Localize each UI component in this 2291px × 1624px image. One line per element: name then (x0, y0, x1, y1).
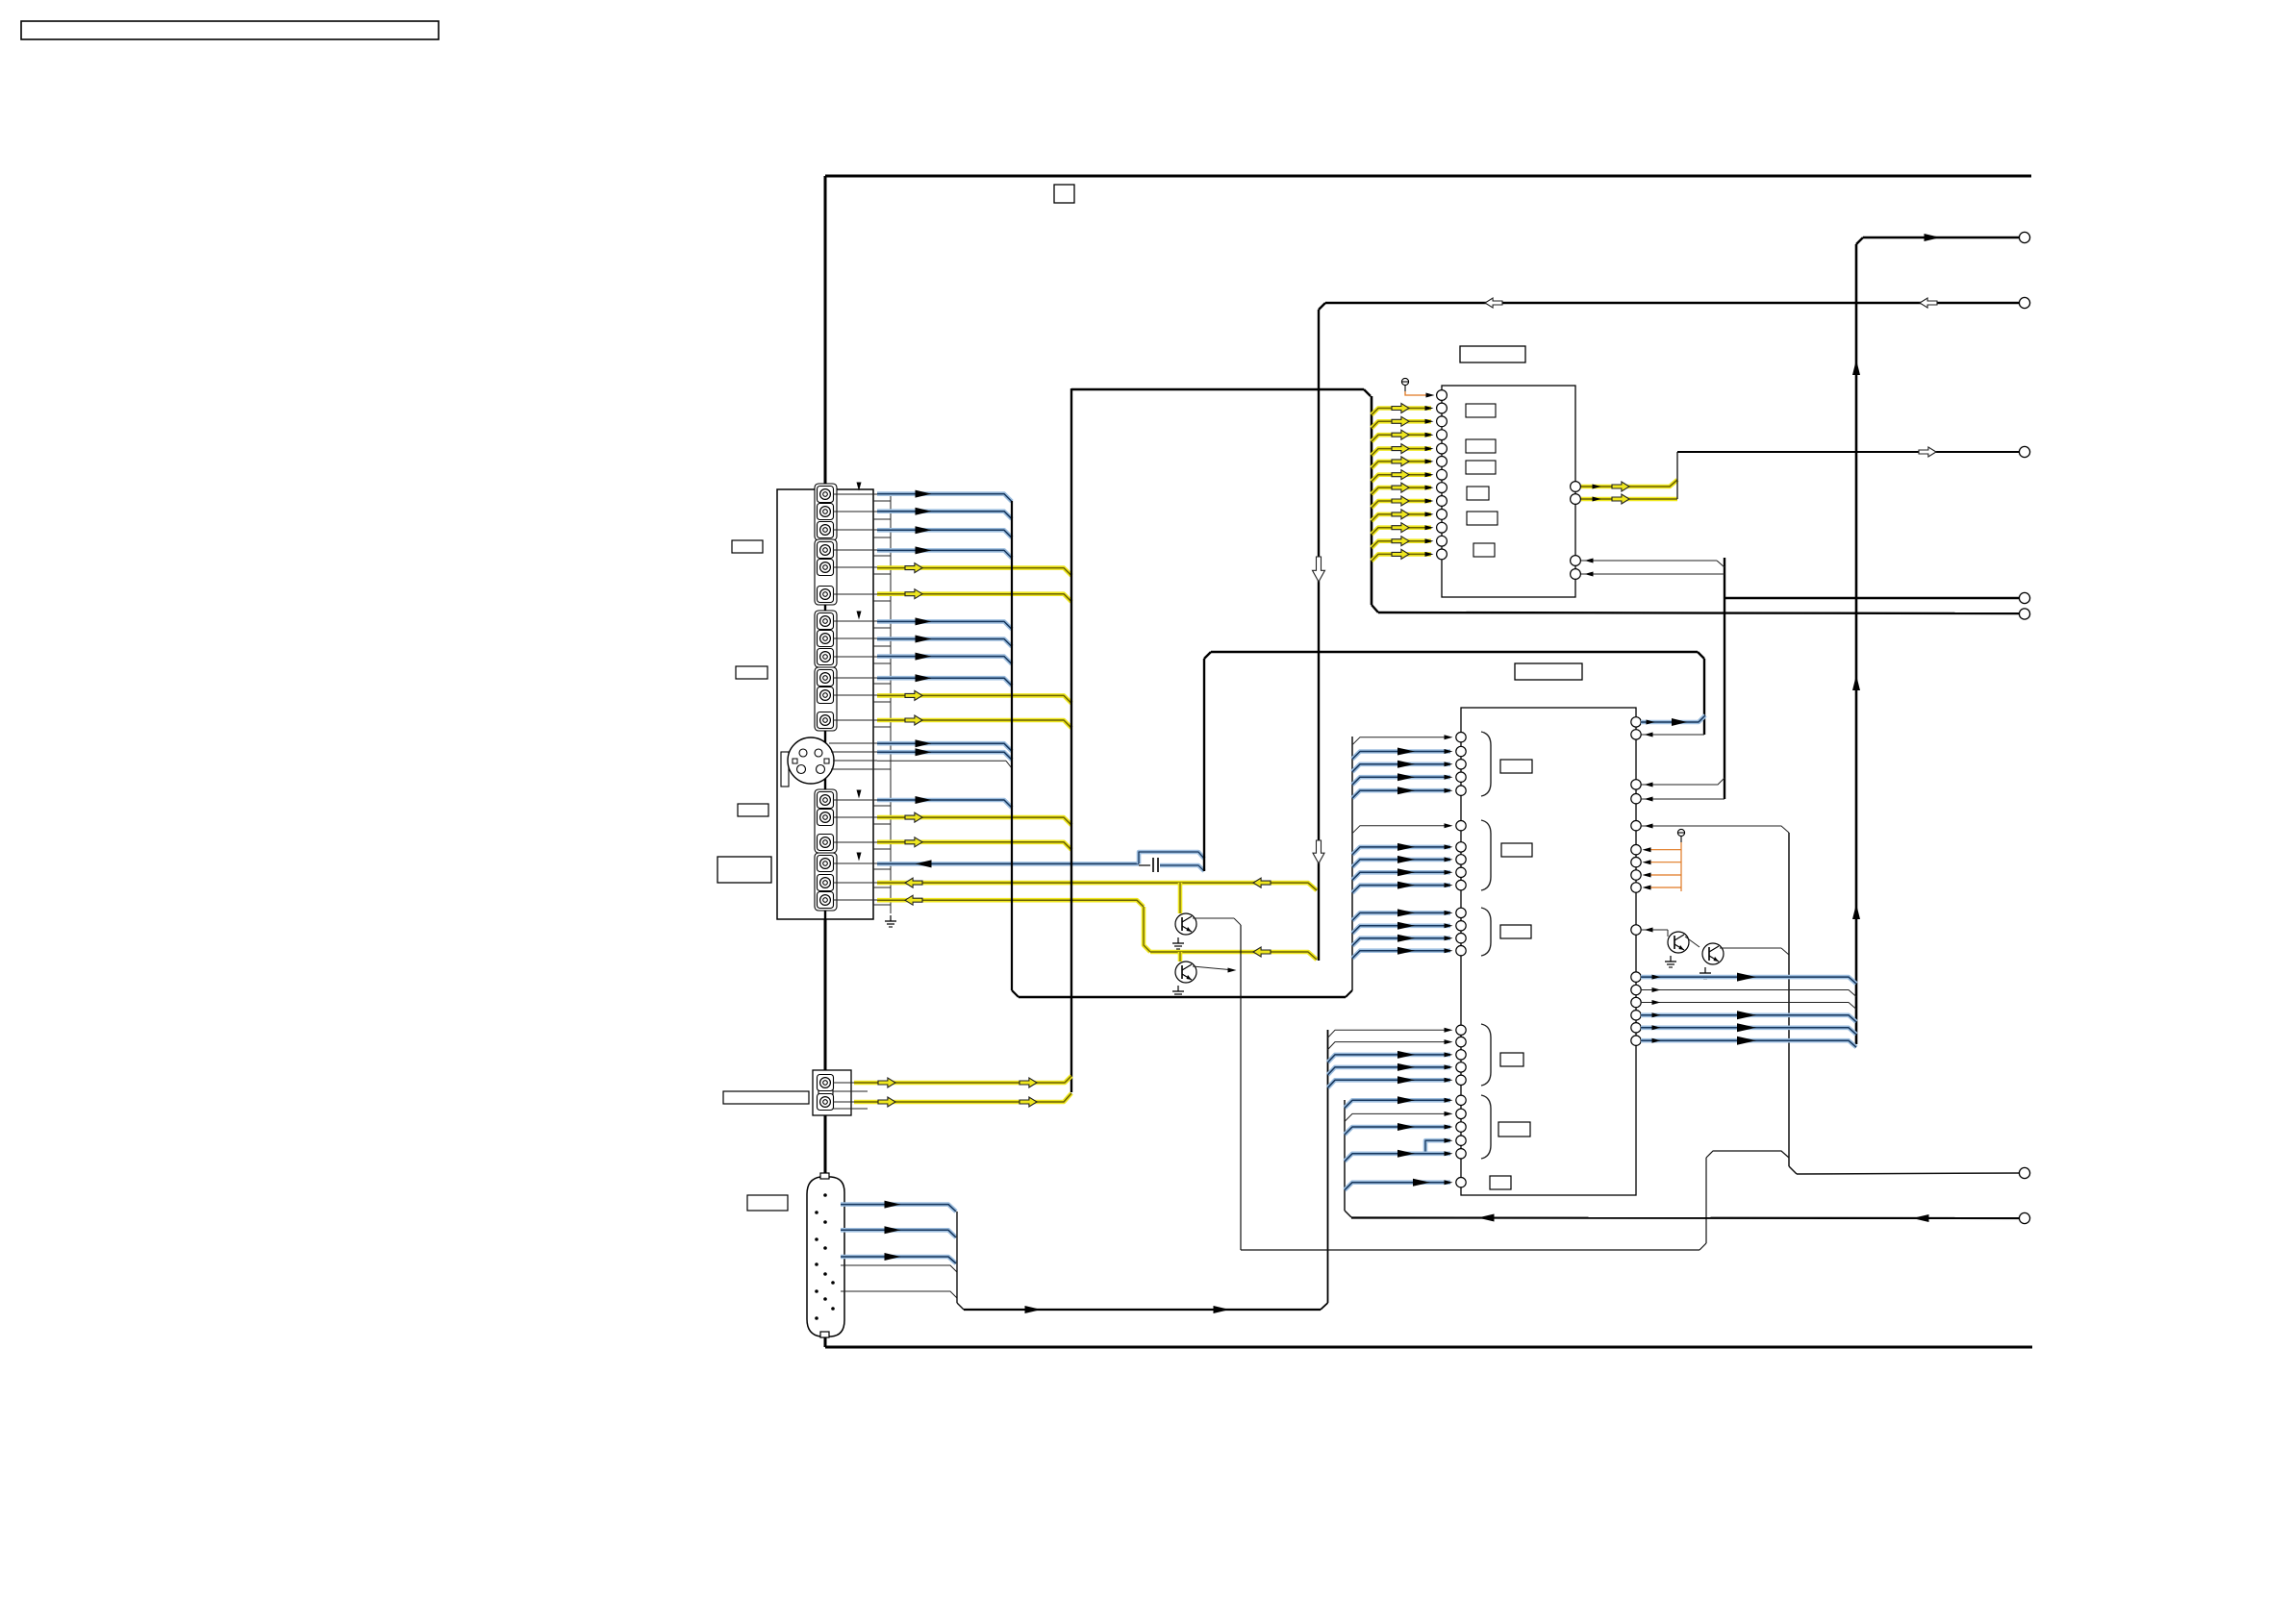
IC2 out blue wire r5 (1641, 1023, 1856, 1035)
wire y470 to terminal (1677, 447, 2020, 457)
blue AV wire y572 (877, 546, 1012, 558)
label box J2 (736, 666, 768, 679)
blue AV wire y646 (877, 617, 1012, 629)
orange wire pin 2 (1643, 860, 1682, 864)
IC2 left pin g5.6 (1456, 1178, 1466, 1187)
terminal circle y470 (2019, 446, 2029, 457)
yellow bus x1114 (1070, 388, 1072, 1092)
IC2 left wire 3 (1352, 761, 1453, 772)
yellow wire CN2.1 (854, 1076, 1071, 1087)
IC2 left wire 9 (1352, 868, 1453, 880)
blue AV wire y782 (877, 748, 1012, 760)
IC2 right pin 4 (1631, 794, 1641, 804)
yellow video wire y617 (877, 589, 1071, 602)
IC2 right pin 3 (1631, 780, 1641, 789)
jack group 4 box (815, 667, 837, 731)
blue monitor-out wire y898 (877, 860, 1139, 867)
feed bus x1398 (1345, 1100, 1351, 1217)
IC2 inner rect 1 (1500, 760, 1532, 773)
mini down arrow y891 (857, 853, 862, 862)
S-video pin leads (829, 743, 891, 769)
IC1 out pin B (1571, 494, 1581, 505)
IC1 in pin D (1571, 569, 1581, 580)
IC1 in pin C (1571, 556, 1581, 566)
riser x1744 (1676, 452, 1678, 499)
RCA jack 3.2 (818, 631, 834, 647)
IC1 yellow input wire pin 5 (1372, 444, 1434, 456)
label box D-sub (747, 1195, 788, 1211)
IC2 in wire y764 (1641, 733, 1704, 737)
wire y637 to terminal (1378, 612, 2020, 613)
transistor Q3 (1175, 913, 1196, 935)
wire y1266 from terminal (1351, 1214, 2020, 1223)
down arrow 2 on x1370 (1313, 840, 1324, 863)
RCA jack 6.3 (818, 892, 834, 909)
IC2 left pin 10 (1456, 880, 1466, 889)
orange supply node (1677, 829, 1684, 842)
ground Q2 (1699, 967, 1711, 979)
RCA jack 4.3 (818, 712, 834, 729)
RCA jack 1.2 (818, 504, 834, 520)
vert x1290 (1240, 925, 1242, 1250)
orange wire pin 3 (1643, 873, 1682, 878)
IC2 right pin 1 (1631, 717, 1641, 727)
IC2 left wire 11 (1352, 909, 1453, 920)
IC2 right pin 5 (1631, 821, 1641, 831)
Q2 collector wire (1720, 948, 1789, 955)
panel ground (885, 915, 896, 927)
IC1 inner block 2 (1466, 439, 1496, 453)
IC1 pin 10 (1437, 510, 1448, 520)
IC2 right pin 8 (1631, 870, 1641, 880)
IC1 body (1442, 386, 1575, 597)
terminal circle y315 (2019, 297, 2029, 308)
yellow video wire y749 (877, 715, 1071, 728)
jack group 6 box (815, 853, 837, 911)
IC1 yellow input wire pin 4 (1372, 430, 1434, 441)
IC2 right pin 7 (1631, 858, 1641, 867)
group brace 2 (1481, 820, 1491, 890)
IC2 right pin 10 (1631, 925, 1641, 935)
IC1 yellow out wires (1581, 480, 1677, 504)
IC2 right pin 15 (1631, 1023, 1641, 1033)
IC1 pin 1 (1437, 390, 1448, 401)
IC2 out wire r2 (1641, 987, 1856, 997)
IC1 pin 12 (1437, 536, 1448, 546)
title box (top-left) (21, 21, 439, 39)
jack CN2 outline (813, 1070, 851, 1115)
IC1 yellow input wire pin 10 (1372, 510, 1434, 521)
RCA jack 5.3 (818, 835, 834, 851)
IC2 left pin 14 (1456, 946, 1466, 956)
IC2 inner rect 3 (1500, 925, 1531, 938)
IC2 left pin 8 (1456, 855, 1466, 864)
IC2 left pin g5.2 (1456, 1109, 1466, 1118)
bus x1793 (1724, 558, 1725, 799)
IC2 left wire 13 (1352, 935, 1453, 946)
IC1 yellow input wire pin 8 (1372, 483, 1434, 494)
bus wire y1037 (1019, 990, 1352, 997)
label box J1 (732, 540, 763, 553)
IC2 left pin 12 (1456, 921, 1466, 931)
outer chassis bottom border (825, 1346, 2032, 1349)
feed bus x1380 (1321, 1030, 1328, 1310)
RCA jack 5.2 (818, 810, 834, 826)
D-sub body (807, 1177, 844, 1337)
RCA jack 6.2 (818, 875, 834, 891)
IC2 left wire 1 (sync) (1352, 735, 1453, 745)
IC1 label box (1460, 346, 1525, 362)
RCA jack 2.3 (818, 587, 834, 603)
vert x1860 (1789, 833, 1797, 1174)
IC2 label box (1515, 663, 1582, 680)
IC2 left pin 3 (1456, 760, 1466, 769)
RCA jack 3.3 (818, 649, 834, 665)
up arrow 2 on x1930 (1852, 675, 1860, 690)
blue bus x1052 (1012, 501, 1019, 997)
S-video connector (781, 737, 834, 787)
IC2 left wire g4.2 (sync) (1328, 1039, 1453, 1050)
IC2 left pin 7 (1456, 842, 1466, 852)
IC1 pin 6 (1437, 457, 1448, 467)
IC1 pin 9 (1437, 496, 1448, 507)
chassis line through panel (824, 489, 826, 919)
orange wire pin 4 (1643, 886, 1682, 890)
panel shield comb (873, 496, 891, 913)
IC2 left pin 13 (1456, 934, 1466, 943)
D-sub blue wire 2 (841, 1226, 956, 1237)
IC2 out wire r3 (1641, 1000, 1856, 1010)
transistor Q1 (1668, 930, 1689, 953)
jack group 2 box (815, 539, 837, 605)
IC1 inner block 3 (1466, 461, 1496, 474)
IC1 pin 13 (1437, 549, 1448, 560)
RCA jack 1.1 (818, 487, 834, 503)
mini down arrow y640 (857, 612, 862, 620)
IC2 left pin 2 (1456, 746, 1466, 756)
jack group 1 box (815, 484, 837, 540)
down arrow 1 on x1370 (1313, 557, 1325, 582)
IC2 left wire g4.3 (1328, 1051, 1453, 1062)
IC2 left pin g4.4 (1456, 1062, 1466, 1072)
IC2 inner rect 6 (1490, 1176, 1511, 1189)
wire y247 to terminal (1863, 234, 2020, 241)
blue AV wire y832 (877, 796, 1012, 808)
IC2 left pin 9 (1456, 867, 1466, 877)
yellow stub to Q3 (1178, 883, 1183, 913)
wire y1197 (1706, 1151, 1789, 1158)
IC2 left wire 12 (1352, 922, 1453, 934)
wire y622 to terminal (1725, 597, 2020, 599)
RCA jack 4.2 (818, 687, 834, 704)
IC1 pin 5 (1437, 443, 1448, 454)
yellow video wire y850 (877, 812, 1071, 825)
IC1 pin 8 (1437, 483, 1448, 493)
RCA jack 3.1 (818, 613, 834, 630)
IC2 left wire 5 (1352, 787, 1453, 798)
blue AV wire y513 (877, 490, 1012, 502)
jack CN2 inner (818, 1076, 833, 1108)
IC2 left pin g4.3 (1456, 1050, 1466, 1060)
IC1 inner block 6 (1473, 543, 1495, 557)
IC2 right pin 12 (1631, 985, 1641, 994)
ground Q4 (1172, 986, 1184, 997)
orange wire pin 1 (1643, 847, 1682, 852)
IC2 right pin 2 (1631, 730, 1641, 739)
transistor Q4 (1175, 962, 1196, 983)
IC1 pin 3 (1437, 416, 1448, 427)
outer chassis left border (824, 176, 827, 1347)
IC2 out blue wire r1 (1641, 973, 1856, 985)
transistor Q2 (1702, 943, 1724, 964)
orange bus (1680, 842, 1682, 891)
label box CN2 (723, 1091, 809, 1104)
yellow wire CN2.2 (854, 1093, 1071, 1107)
RCA jack 5.1 (818, 792, 834, 809)
IC2 left pin g4.1 (1456, 1025, 1466, 1035)
IC2 left pin 5 (1456, 786, 1466, 795)
IC2 left pin g4.5 (1456, 1075, 1466, 1085)
jack group 5 box (815, 789, 837, 853)
group brace 3 (1481, 908, 1491, 956)
D-sub wire 4 (841, 1265, 957, 1272)
IC1 inner block 4 (1467, 487, 1489, 500)
IC2 left pin 1 (1456, 733, 1466, 742)
RCA jack 1.3 (818, 522, 834, 538)
yellow video wire y875 (877, 837, 1071, 850)
IC1 pin 2 (1437, 403, 1448, 413)
IC1 pin 4 (1437, 430, 1448, 440)
vert x1774 (1699, 1158, 1706, 1250)
mini down arrow y506 (857, 483, 862, 491)
group brace 1 (1481, 732, 1491, 796)
ground Q1 (1665, 956, 1676, 967)
outer chassis top border (825, 175, 2031, 178)
IC2 out blue wire r4 (1641, 1011, 1856, 1022)
Q1-Q2 link (1685, 937, 1699, 947)
IC1 yellow input wire pin 11 (1372, 523, 1434, 535)
up arrow 1 on x1930 (1852, 360, 1860, 375)
IC2 right pin 13 (1631, 997, 1641, 1007)
corner x1252 (1204, 652, 1211, 871)
IC1 yellow input wire pin 3 (1372, 416, 1434, 428)
D-sub wire 5 (841, 1291, 957, 1298)
D-sub collector bus (957, 1212, 964, 1310)
thin shield wire y791 (877, 761, 1012, 768)
IC2 in wire y967 (1641, 928, 1668, 933)
blue AV wire y664 (877, 636, 1012, 647)
IC2 right pin 14 (1631, 1011, 1641, 1020)
RCA jack CN2.2 (818, 1094, 834, 1111)
blue AV wire y551 (877, 526, 1012, 537)
IC2 left pin g5.1 (1456, 1095, 1466, 1105)
D-sub top tab (820, 1173, 829, 1179)
IC2 left wire g5.4 (jog) (1425, 1138, 1453, 1154)
IC2 left wire g4.4 (1328, 1063, 1453, 1075)
sheet marker square (1054, 185, 1074, 203)
IC2 left wire g5.5 (1345, 1150, 1453, 1162)
corner x1773 (1698, 652, 1704, 735)
vert bus x1930 (1856, 237, 1863, 1044)
IC1 feedback wires (1581, 559, 1725, 577)
IC2 left wire g5.6 (1345, 1179, 1453, 1190)
Q3 collector (1193, 918, 1241, 925)
yellow out wire y936 (877, 895, 1144, 907)
IC2 left wire 7 (1352, 843, 1453, 855)
IC2 right pin 11 (1631, 972, 1641, 982)
wire y315 to terminal (1325, 298, 2020, 308)
wire y1362 (964, 1306, 1321, 1313)
jack pin leads (833, 494, 877, 900)
IC2 right pin 9 (1631, 883, 1641, 892)
wire y1221 to terminal (1797, 1173, 2020, 1174)
label box J4 (large) (718, 857, 771, 883)
IC1 yellow input wire pin 6 (1372, 457, 1434, 468)
yellow feed bus x1426 (1372, 396, 1378, 612)
wire y1300 (1241, 1249, 1699, 1251)
RCA jack 4.1 (818, 670, 834, 687)
jack group 3 box (815, 611, 837, 667)
capacitor C1 bypass hump (1139, 852, 1204, 872)
terminal circle y247 (2019, 232, 2029, 242)
IC1 pin 7 (1437, 469, 1448, 480)
group brace 4 (1481, 1024, 1491, 1086)
blue AV wire y773 (877, 739, 1012, 751)
IC2 left wire g4.5 (1328, 1076, 1453, 1087)
IC2 out blue wire y751 (1641, 715, 1705, 726)
terminal circle y1220 (2019, 1167, 2029, 1178)
IC1 yellow input wire pin 9 (1372, 496, 1434, 508)
IC2 in wire y859 (1641, 824, 1789, 834)
IC1 inner block 5 (1467, 512, 1498, 525)
IC2 left pin g5.4 (1456, 1136, 1466, 1145)
IC1 pin 1 power node (1401, 378, 1434, 397)
yellow out wire y990 (1150, 947, 1317, 960)
left feed bus x1406 (1351, 737, 1353, 990)
IC2 left wire 14 (1352, 947, 1453, 959)
IC2 left wire 4 (1352, 773, 1453, 785)
ground Q3 (1172, 937, 1184, 949)
IC1 yellow input wire pin 12 (1372, 537, 1434, 548)
RCA jack CN2.1 (818, 1075, 834, 1091)
IC1 inner block 1 (1466, 404, 1496, 417)
IC1 yellow input wire pin 7 (1372, 470, 1434, 482)
IC2 left wire 10 (1352, 882, 1453, 893)
IC2 left pin 4 (1456, 772, 1466, 782)
blue AV wire y531 (877, 508, 1012, 519)
terminal circle y622 (2019, 592, 2029, 603)
IC2 inner rect 2 (1501, 843, 1532, 857)
Q4 collector (1193, 966, 1237, 973)
IC2 left pin g5.5 (1456, 1149, 1466, 1159)
IC2 left pin g4.2 (1456, 1037, 1466, 1046)
IC2 right pin 6 (1631, 845, 1641, 855)
terminal circle y1267 (2019, 1212, 2029, 1223)
blue AV wire y682 (877, 653, 1012, 664)
yellow riser x1189 (1144, 907, 1150, 952)
yellow video wire y723 (877, 690, 1071, 703)
vert x1370 (1319, 303, 1325, 961)
RCA jack 2.2 (818, 560, 834, 576)
IC2 out blue wire r6 (1641, 1037, 1856, 1048)
IC1 out pin A (1571, 482, 1581, 492)
IC2 left wire 2 (1352, 748, 1453, 760)
yellow out wire y918 (877, 878, 1317, 890)
IC1 yellow input wire pin 13 (1372, 549, 1434, 561)
D-sub pin dots (815, 1193, 835, 1320)
mini down arrow y826 (857, 790, 862, 799)
RCA jack 2.1 (818, 542, 834, 559)
yellow video wire y590 (877, 563, 1071, 576)
wire y678 (1211, 651, 1698, 654)
RCA jack 6.1 (818, 856, 834, 872)
IC2 in wire y831 (1641, 797, 1725, 802)
IC2 left wire g5.2 (sync) (1345, 1112, 1453, 1122)
group brace 5 (1481, 1095, 1491, 1159)
up arrow 3 on x1930 (1852, 904, 1860, 919)
IC2 body (1461, 708, 1636, 1195)
IC2 left wire g4.1 (sync) (1328, 1028, 1453, 1038)
IC2 left wire 6 (sync) (1352, 823, 1453, 834)
terminal circle y638 (2019, 609, 2029, 619)
label box J3 (738, 804, 768, 816)
D-sub blue wire 3 (841, 1253, 956, 1263)
D-sub blue wire 1 (841, 1201, 956, 1212)
blue AV wire y705 (877, 674, 1012, 686)
CN2 pin leads (833, 1083, 868, 1109)
yellow stub to Q4 (1178, 952, 1183, 962)
IC1 yellow input wire pin 2 (1372, 404, 1434, 415)
IC2 left wire g5.1 (1345, 1096, 1453, 1108)
bus wire y405 (1071, 389, 1371, 396)
IC2 inner rect 4 (1500, 1053, 1523, 1066)
D-sub bottom tab (820, 1332, 829, 1337)
IC1 pin 11 (1437, 522, 1448, 533)
IC2 inner rect 5 (1498, 1122, 1530, 1137)
IC2 left wire g5.3 (1345, 1123, 1453, 1135)
IC2 left pin g5.3 (1456, 1122, 1466, 1132)
IC2 left pin 11 (1456, 908, 1466, 917)
IC2 left pin 6 (1456, 821, 1466, 831)
IC2 right pin 16 (1631, 1036, 1641, 1045)
AV input panel CN outline (777, 489, 873, 919)
IC2 left wire 8 (1352, 856, 1453, 867)
IC2 in wire y816 (1641, 778, 1725, 787)
